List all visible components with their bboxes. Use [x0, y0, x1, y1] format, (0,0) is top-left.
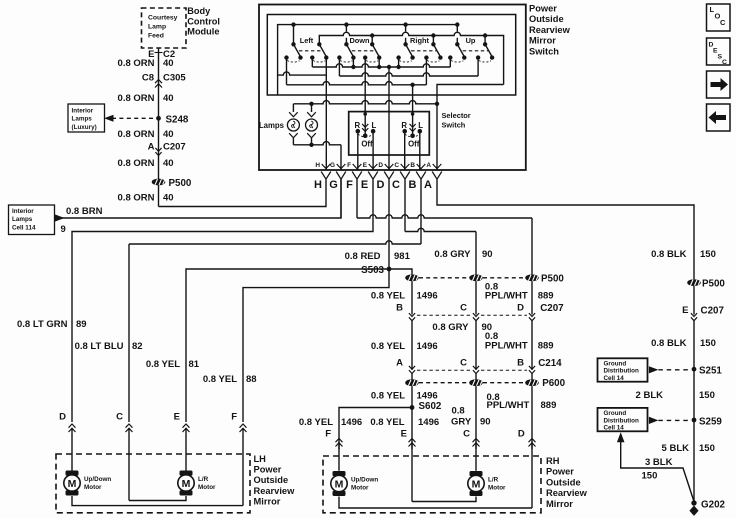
svg-text:F: F [231, 412, 237, 423]
wire pin G stub [340, 179, 342, 218]
wire pole2-common return to pin A [437, 85, 504, 104]
svg-text:1496: 1496 [417, 291, 438, 302]
svg-text:150: 150 [700, 249, 716, 260]
lamp 1 [287, 119, 299, 131]
wire switch common rail [278, 25, 458, 95]
arrow B into C207 [409, 313, 415, 321]
svg-text:A: A [426, 162, 431, 169]
wire BLK vertical S259 to G202 [693, 420, 695, 503]
arrow pin E into connector [369, 164, 378, 169]
splice S251 [692, 367, 697, 372]
wire pin C to GRY column [405, 228, 476, 231]
wire pin H to 0.8 ORN feed [159, 179, 327, 206]
wire pin G drop from lamp return [340, 145, 342, 170]
arrow into lamp1 [289, 112, 298, 117]
svg-text:3 BLK: 3 BLK [645, 457, 673, 468]
switch Down pole2 contact right [377, 55, 381, 59]
wire LH pin D into box [71, 428, 73, 471]
svg-text:H: H [314, 179, 322, 191]
svg-text:D: D [378, 162, 383, 169]
LH left/right motor [178, 471, 194, 496]
svg-text:0.8 YEL: 0.8 YEL [203, 374, 237, 385]
svg-text:PPL/WHT: PPL/WHT [485, 291, 528, 302]
dashed connector row C214 [417, 369, 527, 371]
dashed connector row P500 [419, 277, 525, 279]
dashed wire Ground Distribution lower to S259 [658, 419, 689, 421]
svg-text:G202: G202 [701, 500, 726, 511]
svg-text:E: E [363, 162, 368, 169]
svg-text:0.8 ORN: 0.8 ORN [118, 58, 155, 69]
icon box DESC [707, 38, 731, 65]
selector wiper pivot 1 [363, 134, 368, 139]
wire RH pin F into box [338, 442, 340, 471]
svg-text:40: 40 [163, 93, 174, 104]
svg-text:1496: 1496 [417, 391, 438, 402]
svg-text:40: 40 [163, 158, 174, 169]
svg-text:L: L [372, 121, 377, 130]
svg-text:C: C [460, 358, 467, 369]
wire S602 branch to RH pin F [339, 408, 412, 450]
svg-text:889: 889 [538, 291, 554, 302]
switch Up pole2 lever [485, 44, 492, 56]
switch Right pole2 contact left [424, 55, 428, 59]
wire RH up/down motor bottom to pin D [339, 497, 532, 509]
svg-text:PPL/WHT: PPL/WHT [487, 400, 530, 411]
connector C305 arrow (up) [155, 80, 162, 88]
svg-text:C305: C305 [163, 73, 186, 84]
switch Down pole1 pivot [344, 42, 348, 46]
arrow pin B into connector [417, 164, 426, 169]
svg-text:90: 90 [482, 249, 493, 260]
arrow RH pin F [336, 439, 343, 447]
box Interior Lamps Cell 114 [9, 205, 55, 235]
inline connector P500 row - YEL [405, 274, 419, 281]
wire PPL vertical (C214 to P600) [531, 374, 533, 380]
dashed wire S248 to Interior Lamps (Luxury) [112, 117, 154, 119]
svg-text:1496: 1496 [417, 341, 438, 352]
wire pin B from selector L2 [419, 131, 421, 170]
switch Right pole2 pivot [431, 42, 435, 46]
arrow B into C214 [529, 366, 535, 374]
wire rail riser Left [293, 25, 295, 45]
wire RH pin C into box [475, 442, 477, 471]
arrowhead to Interior Lamps (Luxury) [104, 115, 114, 122]
svg-text:0.8 RED: 0.8 RED [345, 251, 381, 262]
wire pole-2 riser 1 [371, 36, 373, 45]
icon box left arrow [707, 104, 731, 131]
arrow selector wiper 1 [362, 124, 368, 132]
power outside rearview mirror switch outer box [259, 5, 526, 171]
arrow C into C214 [473, 366, 479, 374]
wire contact drop 312.5 to L1 [311, 58, 313, 67]
wire BLK vertical P500 to C207 [693, 286, 695, 315]
wire 0.8 BRN from Interior Lamps Cell 114 to pin G [62, 179, 341, 218]
RH mirror dashed box [323, 456, 541, 513]
dashed connector row P600 [419, 382, 525, 384]
wire YEL vertical (C207 to C214) [411, 321, 413, 370]
wire GRY vertical (P600 to RH C) [475, 386, 477, 449]
switch Left pole1 lever [294, 44, 301, 56]
wire pin F from selector R1 [357, 131, 359, 170]
svg-text:F: F [325, 428, 331, 439]
switch Right pole1 contact right [410, 55, 414, 59]
svg-text:B: B [396, 303, 403, 314]
wire PPL vertical (P500 to C207) [531, 281, 533, 314]
svg-text:D: D [517, 303, 524, 314]
dashed throw arc Up pole2 [479, 61, 492, 63]
wire LH pin E into box [185, 428, 187, 471]
arrow A into C214 [409, 366, 415, 374]
svg-text:C: C [116, 412, 123, 423]
wire pin H inside switch box [325, 58, 327, 170]
wire lamp return bus to pin G [293, 142, 341, 145]
svg-text:150: 150 [642, 471, 658, 482]
node pole-2 bus junction 3 [483, 33, 487, 37]
svg-text:0.8 ORN: 0.8 ORN [118, 129, 155, 140]
fork connector pin E [368, 172, 378, 180]
svg-text:0.8 ORN: 0.8 ORN [118, 158, 155, 169]
svg-text:S248: S248 [166, 114, 189, 125]
wire lamp2 return [311, 138, 313, 145]
switch Down pole2 pivot [370, 42, 374, 46]
svg-text:981: 981 [394, 251, 411, 262]
dashed gang bar Down [352, 50, 375, 52]
wire switch pole-2 bus [319, 32, 503, 84]
node lamp bus pin A junction [435, 102, 439, 106]
arrow D into C207 [529, 313, 535, 321]
svg-text:C: C [722, 59, 727, 66]
svg-text:0.8 BRN: 0.8 BRN [66, 206, 103, 217]
arrow LH pin E [183, 424, 190, 432]
wire PPL vertical (P600 to RH D) [531, 386, 533, 449]
arrow pin H into connector [322, 164, 331, 169]
wire RH pin D into box [531, 442, 533, 508]
splice S503 [387, 267, 392, 272]
wire pin F to PPL/WHT column [357, 215, 532, 218]
connector C2 tick [155, 52, 163, 54]
dashed throw arc Left pole2 [313, 61, 326, 63]
svg-text:82: 82 [132, 341, 143, 352]
wire YEL vertical (C214 to P600) [411, 374, 413, 380]
svg-text:0.8 YEL: 0.8 YEL [371, 391, 405, 402]
switch Left pole2 contact right [324, 55, 328, 59]
wire contact drop 398.6 to L1 [398, 58, 400, 67]
node selector wiper feed 2 [411, 112, 415, 116]
svg-text:R: R [401, 121, 407, 130]
arrow pin D into connector [385, 164, 394, 169]
svg-text:C: C [463, 428, 470, 439]
wire pole-2 riser 3 [484, 36, 486, 45]
wire YEL vertical (P600 to S602) [411, 386, 413, 407]
switch Down pole1 contact left [337, 55, 341, 59]
ground symbol G202 [689, 506, 698, 516]
arrow RH pin E [409, 439, 416, 447]
svg-text:GRY: GRY [451, 417, 472, 428]
node pole-2 bus junction 2 [431, 33, 435, 37]
wire GRY vertical upper [475, 232, 477, 275]
svg-text:S503: S503 [361, 265, 384, 276]
node rail junction 2 [344, 22, 348, 26]
wire pin B drop [420, 179, 422, 244]
fork connector pin H [321, 172, 331, 180]
svg-text:C: C [720, 18, 726, 27]
dashed throw arc Right pole2 [427, 61, 440, 63]
wire contact drop 339.4 to L2 [338, 58, 340, 76]
dashed throw arc Down pole2 [366, 61, 379, 63]
svg-text:40: 40 [163, 193, 174, 204]
svg-text:0.8 ORN: 0.8 ORN [118, 93, 155, 104]
svg-text:90: 90 [480, 417, 491, 428]
selector contact R1 [356, 129, 361, 134]
wire rail riser Right [405, 25, 407, 45]
switch Up pole1 contact right [462, 55, 466, 59]
svg-text:150: 150 [699, 390, 715, 401]
arrow RH pin D [529, 439, 536, 447]
splice S248 [156, 116, 161, 121]
splice S259 [692, 418, 697, 423]
node L1-353.4 [351, 65, 355, 69]
wire pin D inside switch box [388, 67, 390, 170]
dashed throw arc Up pole1 [451, 61, 464, 63]
svg-text:C214: C214 [538, 358, 562, 369]
wire pole-2 riser 2 [432, 36, 434, 45]
svg-text:40: 40 [163, 58, 174, 69]
fork connector pin D [384, 172, 394, 180]
svg-text:S251: S251 [699, 366, 722, 377]
node rail junction 1 [291, 22, 295, 26]
svg-text:1496: 1496 [418, 417, 439, 428]
icon left arrow [709, 111, 727, 124]
svg-text:2 BLK: 2 BLK [636, 390, 664, 401]
switch Up pole1 lever [457, 44, 464, 56]
svg-text:B: B [409, 179, 417, 191]
wire LH L/R motor bottom to pin C [129, 496, 186, 501]
node rail junction 4 [455, 22, 459, 26]
wire LH pin C vertical [128, 244, 130, 422]
wire contact riser L3 to 426.4 [425, 58, 427, 85]
svg-text:B: B [517, 358, 524, 369]
dashed gang bar Up [463, 50, 488, 52]
node lamp return junction [309, 143, 313, 147]
svg-text:40: 40 [163, 129, 174, 140]
svg-text:C207: C207 [540, 303, 564, 314]
dashed throw arc selector 2 [405, 134, 420, 137]
wire pin C drop [404, 179, 406, 231]
fork connector pin C [400, 172, 410, 180]
wire pin C from selector R2 [404, 131, 406, 170]
svg-text:Down: Down [349, 36, 370, 45]
selector wiper pivot 2 [410, 134, 415, 139]
svg-text:889: 889 [541, 400, 557, 411]
svg-text:F: F [347, 162, 351, 169]
switch Right pole1 pivot [403, 42, 407, 46]
switch Up pole2 contact right [490, 55, 494, 59]
wire PPL vertical (C207 to C214) [531, 321, 533, 370]
svg-text:E: E [361, 179, 368, 191]
switch Left pole1 contact left [284, 55, 288, 59]
wire GRY vertical (C214 to P600) [475, 374, 477, 380]
svg-text:G: G [330, 162, 335, 169]
svg-text:E: E [401, 428, 407, 439]
switch Left pole2 contact left [310, 55, 314, 59]
svg-text:G: G [329, 179, 338, 191]
mirror switch inner box [267, 15, 515, 96]
svg-text:P500: P500 [169, 178, 192, 189]
switch Right pole2 contact right [438, 55, 442, 59]
wire pin E to LH mirror pin D [72, 179, 373, 422]
switch Up pole1 pivot [455, 42, 459, 46]
svg-text:P600: P600 [542, 378, 565, 389]
svg-text:88: 88 [246, 374, 257, 385]
svg-text:B: B [410, 162, 415, 169]
svg-text:C: C [460, 303, 467, 314]
splice S602 [410, 405, 415, 410]
switch Right pole1 lever [406, 44, 413, 56]
wire lamp1 return [292, 138, 294, 145]
arrow pin G into connector [337, 164, 346, 169]
svg-text:P500: P500 [702, 279, 725, 290]
fork connector pin G [336, 172, 346, 180]
icon box right arrow [707, 71, 731, 98]
node L1-379.2 [377, 65, 381, 69]
wire GRY vertical (P500 to C207) [475, 281, 477, 314]
node selector wiper feed 1 [363, 112, 367, 116]
arrow into lamp2 [307, 112, 316, 117]
switch Left pole1 contact right [298, 55, 302, 59]
svg-text:P500: P500 [541, 274, 564, 285]
switch Down pole1 lever [346, 44, 353, 56]
inline connector P500 row - GRY [469, 274, 483, 281]
svg-text:D: D [377, 179, 385, 191]
wire bus L1 (y67) [313, 64, 451, 67]
svg-text:89: 89 [76, 319, 87, 330]
svg-text:150: 150 [700, 338, 716, 349]
svg-text:0.8 ORN: 0.8 ORN [118, 193, 155, 204]
svg-text:E: E [682, 305, 688, 316]
inline connector P600 - PPL/WHT [525, 379, 539, 386]
wire S503 to YEL column [389, 269, 412, 274]
switch Right pole2 lever [433, 44, 440, 56]
wire bus L2 (y76) [339, 73, 478, 76]
node lamp bus junction [309, 102, 313, 106]
arrow pin F into connector [353, 164, 362, 169]
svg-text:5 BLK: 5 BLK [662, 443, 690, 454]
wire pin A to right BLK column [437, 179, 694, 279]
arrowhead Ground Distribution upper [649, 366, 659, 373]
box Interior Lamps (Luxury) [68, 104, 105, 132]
svg-text:Off: Off [408, 140, 420, 149]
switch Right pole1 contact left [396, 55, 400, 59]
wire rail return to pin H (y75) [278, 72, 327, 75]
svg-text:0.8 GRY: 0.8 GRY [432, 322, 469, 333]
dashed gang bar Right [411, 50, 436, 52]
wire BLK vertical C207 to S251 [693, 321, 695, 370]
svg-text:PPL/WHT: PPL/WHT [485, 341, 528, 352]
svg-text:889: 889 [538, 341, 554, 352]
node L3-wiper2 [410, 83, 414, 87]
wire S503 lower branch to LH mirror pin F [243, 269, 389, 422]
wire selector wiper feed 2 [412, 85, 414, 136]
wire PPL/WHT vertical upper [531, 218, 533, 274]
body control module dashed box (Courtesy Lamp Feed) [142, 8, 187, 48]
wire pin E from selector L1 [372, 131, 374, 170]
svg-text:0.8 LT BLU: 0.8 LT BLU [75, 341, 124, 352]
dashed throw arc Right pole1 [399, 61, 412, 63]
svg-text:Right: Right [410, 36, 429, 45]
arrow pin C into connector [401, 164, 410, 169]
wire contact drop 286.5 to L3 [286, 58, 288, 85]
switch Up pole2 contact left [476, 55, 480, 59]
inline connector P600 - YEL [405, 379, 419, 386]
selector contact R2 [402, 129, 407, 134]
svg-text:Lamps: Lamps [259, 121, 285, 130]
svg-text:A: A [424, 179, 432, 191]
svg-text:0.8 GRY: 0.8 GRY [434, 249, 471, 260]
wire rail riser Down [345, 25, 347, 45]
wire lamp1 riser [292, 104, 294, 112]
svg-text:R: R [354, 121, 360, 130]
fork connector pin A [432, 172, 442, 180]
svg-text:0.8 YEL: 0.8 YEL [299, 417, 333, 428]
svg-text:0.8 LT GRN: 0.8 LT GRN [17, 319, 68, 330]
wire rail riser Up [456, 25, 458, 45]
RH left/right motor [468, 471, 484, 496]
LH mirror dashed box [56, 454, 250, 513]
svg-text:C207: C207 [701, 306, 725, 317]
svg-text:F: F [346, 179, 353, 191]
wire S503 to LH mirror pin E [186, 269, 389, 422]
LH up/down motor [64, 471, 80, 496]
dashed wire Ground Distribution upper to S251 [658, 369, 689, 371]
arrow LH pin F [240, 424, 247, 432]
svg-text:81: 81 [189, 359, 200, 370]
arrow LH pin D [69, 424, 76, 432]
svg-text:Left: Left [300, 36, 314, 45]
wire S602 to RH pin E [411, 408, 413, 450]
arrow E into C207 right [691, 313, 697, 321]
icon right arrow [711, 78, 729, 91]
svg-text:0.8 YEL: 0.8 YEL [370, 417, 404, 428]
svg-text:H: H [315, 162, 320, 169]
switch Left pole2 lever [319, 44, 326, 56]
node rail junction 3 [403, 22, 407, 26]
RH up/down motor [331, 471, 347, 496]
box Ground Distribution Cell 14 (upper) [598, 358, 648, 381]
arrow pin A into connector [433, 164, 442, 169]
dashed throw arc Left pole1 [287, 61, 300, 63]
inline connector P500 row - PPL/WHT [525, 274, 539, 281]
icon box LOC [707, 4, 731, 31]
wire pin D to splice S503 (0.8 RED) [388, 179, 390, 269]
svg-text:1496: 1496 [341, 417, 362, 428]
arrow selector wiper 2 [410, 124, 416, 132]
arrow out of lamp2 [307, 133, 316, 138]
svg-text:A: A [148, 142, 155, 153]
arrowhead from Interior Lamps Cell 114 [55, 214, 65, 222]
node L1-D [387, 65, 391, 69]
fork connector pin B [416, 172, 426, 180]
svg-text:D: D [59, 412, 66, 423]
wire RH pin E into box [411, 442, 413, 502]
dashed throw arc selector 1 [358, 134, 373, 137]
inline connector P600 - GRY [469, 379, 483, 386]
switch Down pole2 contact left [363, 55, 367, 59]
switch Down pole2 lever [372, 44, 379, 56]
wire lamp2 riser [311, 104, 313, 112]
wire bus L3 (y84.8) [287, 82, 427, 85]
arrow out of lamp1 [289, 133, 298, 138]
arrowhead 3 BLK wire to Ground Distribution lower [617, 432, 625, 442]
